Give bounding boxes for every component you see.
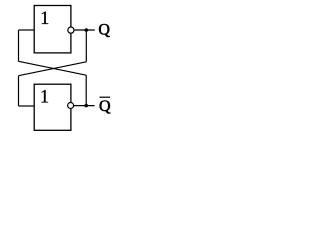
- svg-text:1: 1: [40, 9, 49, 29]
- svg-text:Q: Q: [99, 98, 111, 115]
- gate U2 box: [34, 84, 71, 130]
- wire U1 output to Q: [74, 29, 95, 31]
- wire U1 input: [19, 29, 35, 31]
- svg-text:Q: Q: [98, 21, 110, 38]
- wire Qbar feedback right vertical: [85, 75, 87, 105]
- U2 output bubble: [68, 103, 74, 109]
- wire Q feedback right vertical: [85, 30, 87, 62]
- wire U2 output to Qbar: [74, 105, 95, 107]
- wire U2 input: [19, 105, 35, 107]
- junction dot Qbar: [84, 104, 88, 108]
- U1 output bubble: [68, 27, 74, 33]
- wire Qbar feedback diagonal: [19, 61, 87, 75]
- gate U1 box: [34, 6, 71, 53]
- wire Q feedback diagonal: [19, 62, 87, 76]
- svg-text:1: 1: [40, 88, 49, 108]
- wire Qbar feedback left vertical: [18, 30, 20, 61]
- junction dot Q: [85, 28, 89, 32]
- node Qbar overline: [100, 96, 111, 98]
- wire Q feedback left vertical: [18, 76, 20, 106]
